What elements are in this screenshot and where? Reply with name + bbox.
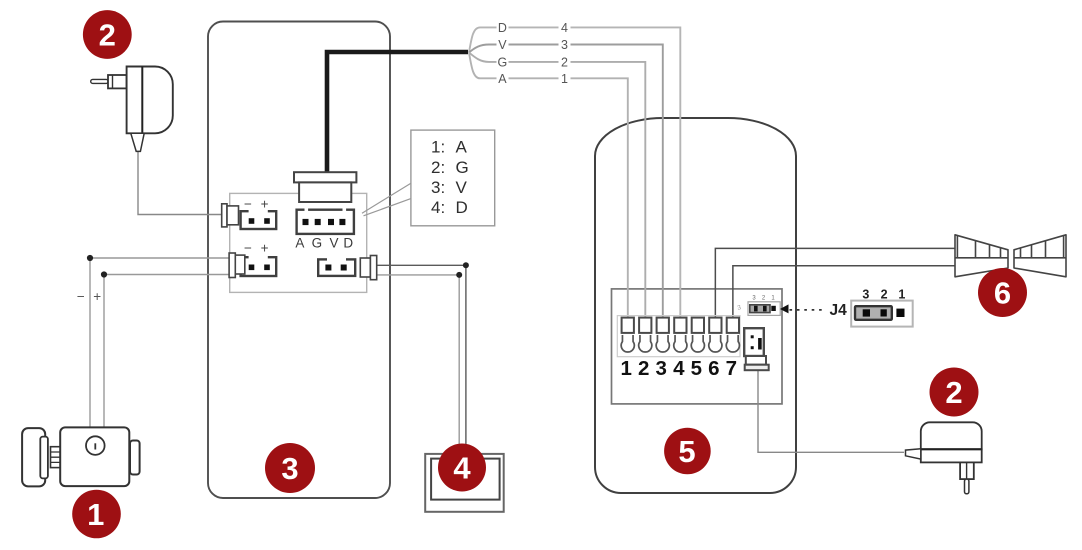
adapter 2b band [921,449,982,462]
arrow to mini jumper [780,304,789,313]
svg-text:G: G [498,56,508,70]
red label 1 [72,490,121,539]
junction dot unit4 lower [456,272,462,278]
plug top-left (tall thin + wide) [222,204,239,227]
svg-text:+: + [261,240,269,255]
junction dot unit4 upper [463,262,469,268]
svg-text:1: 1 [561,72,568,86]
4-pin connector AGVD [297,207,354,234]
svg-text:1:: 1: [431,138,445,157]
mini jumper labels 3 2 1 [752,296,775,302]
svg-text:A: A [456,138,468,157]
camera lens circle [86,436,105,455]
wire label backgrounds and letters D V G A [497,21,571,86]
mini jumper body [748,302,780,316]
red label 3 [265,443,315,493]
svg-text:V: V [329,236,338,251]
terminal wire clamps 1-7 [621,335,739,352]
junction dot minus [87,255,93,261]
svg-text:6: 6 [708,357,719,380]
adapter 2b divider [921,448,982,450]
svg-text:+: + [261,196,269,211]
unit5 power connector [744,328,764,356]
plug bottom-left [229,253,245,278]
cable plug upper bar [294,172,356,182]
svg-text:5: 5 [691,357,702,380]
adapter 2a divider [141,67,143,134]
svg-text:4: 4 [561,21,568,35]
mini jumper cap [750,305,770,313]
red label 2 top-left [83,10,132,59]
camera mid plate [40,437,48,479]
svg-text:5: 5 [678,434,695,469]
horn speaker 6 right cone [1014,235,1066,277]
svg-text:4:: 4: [431,198,445,217]
wire A to terminal 1 [469,53,628,320]
wire: monitor to unit4 upper [377,265,466,455]
legend leader lines [362,183,411,216]
power connector pedestal [746,356,766,365]
svg-text:2: 2 [561,56,568,70]
monitor 2-pin connector top-left [241,209,277,229]
monitor unit 3 outline [208,22,390,499]
svg-text:1: 1 [87,497,104,532]
svg-text:7: 7 [726,357,737,380]
svg-text:1: 1 [620,357,631,380]
svg-text:+: + [93,289,101,304]
wire: monitor to unit4 lower [377,275,459,455]
adapter 2a prong [91,79,109,83]
J4 jumper detail labels 3 2 1 [862,287,905,301]
svg-text:J4: J4 [830,302,848,319]
adapter 2b plug stub [960,462,974,479]
svg-text:4: 4 [673,357,685,380]
labels - + top-left [244,196,269,211]
svg-text:1: 1 [898,287,905,301]
cable plug lower block [299,182,351,202]
wire D to terminal 4 [469,27,680,319]
camera wire labels - + [77,289,101,304]
svg-text:G: G [312,236,323,251]
adapter 2a body [127,67,173,134]
svg-text:2:: 2: [431,158,445,177]
thick cable monitor to fan-out [327,52,468,184]
terminal squares 1-7 [622,318,739,333]
J4 pin 3 [863,309,870,316]
J4 pin 2 [881,309,887,316]
red label 4 [438,444,486,492]
J4 jumper detail body [851,301,913,327]
J4 jumper cap on pins 3-2 [855,306,892,320]
camera ridged knob [51,447,62,468]
wire G to terminal 2 [469,53,645,320]
svg-text:D: D [498,21,507,35]
monitor connector area (gray rect) [230,193,367,292]
wire: adapter 2a to monitor power plug [138,152,222,215]
svg-text:−: − [244,196,252,211]
svg-text:3:: 3: [431,178,445,197]
svg-text:2: 2 [99,18,116,53]
camera 1 left plate [22,428,45,486]
svg-text:3: 3 [281,451,298,486]
svg-text:3: 3 [655,357,666,380]
adapter 2b body [921,422,982,449]
adapter 2b nozzle [906,449,921,459]
monitor 2-pin connector bottom-left [241,255,277,276]
adapter 2b pin [965,479,969,494]
unit 4 inner rect [431,459,500,500]
wire terminal 7 to horn lower [733,266,955,319]
red label 6 [978,268,1027,317]
svg-text:D: D [343,236,353,251]
red label 5 [664,428,711,475]
svg-text:6: 6 [994,276,1011,311]
wire: camera plus to monitor [104,275,230,428]
terminal numbers 1-7 [620,357,737,380]
wire numbers 4 3 2 1 [559,21,571,33]
svg-text:−: − [77,289,85,304]
svg-text:3: 3 [862,287,869,301]
unit 4 (door release) outer rect [425,454,504,512]
unit 5 inner terminal-area rect [612,289,783,404]
labels A G V D [295,236,353,251]
svg-text:V: V [498,38,507,52]
wire V to terminal 3 [469,45,663,320]
wire: camera minus to monitor [90,258,230,427]
svg-text:G: G [456,158,469,177]
camera body [60,427,129,486]
wire unit5 power connector to adapter 2b [758,370,904,452]
labels - + bottom-left [244,240,269,255]
J4 pin 1 [896,309,904,317]
svg-text:−: − [244,240,252,255]
wire terminal 6 to horn upper [715,248,955,319]
camera right stub [130,441,140,475]
svg-text:4: 4 [453,451,471,486]
plug right of bottom-center connector [360,256,376,280]
power connector base [745,365,769,371]
terminal strip light rect [617,316,740,357]
junction dot plus [101,271,107,277]
svg-text:3: 3 [561,38,568,52]
outdoor unit 5 outline [595,118,796,493]
legend box [411,130,495,226]
mini jumper pins [754,306,758,312]
svg-text:2: 2 [638,357,649,380]
svg-text:A: A [295,236,304,251]
svg-text:2: 2 [945,375,962,410]
svg-text:A: A [498,72,507,86]
red label 2 bottom-right [930,368,979,417]
svg-text:D: D [456,198,468,217]
dashed leader to J4 [790,309,827,311]
svg-text:2: 2 [881,287,888,301]
adapter 2a snout [108,75,127,88]
adapter 2a nozzle [131,133,144,151]
camera lens slot [94,443,96,449]
svg-text:V: V [456,178,468,197]
horn speaker 6 left cone [955,235,1008,277]
monitor 2-pin connector bottom-center [318,257,355,276]
